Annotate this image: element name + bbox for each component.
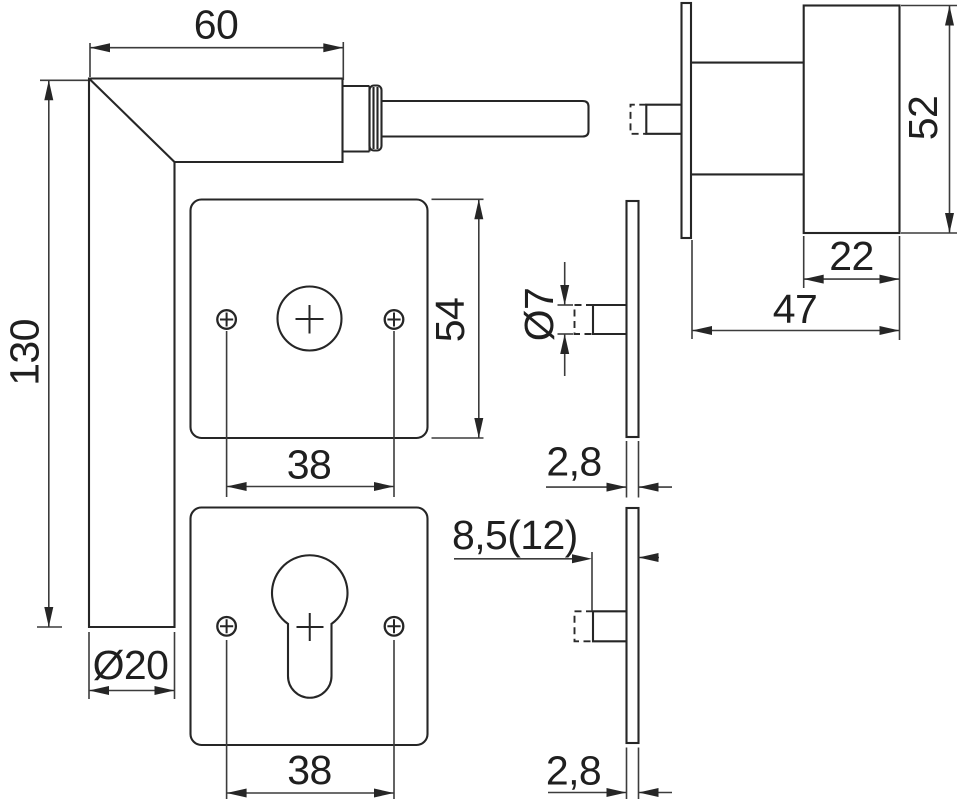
euro profile cylinder hole (272, 555, 348, 698)
svg-text:2,8: 2,8 (546, 748, 601, 794)
plate2 left screw (217, 617, 236, 636)
svg-text:130: 130 (2, 319, 48, 386)
escutcheon plate 1 front (191, 200, 428, 439)
svg-text:54: 54 (427, 298, 473, 342)
plate1 right screw (385, 310, 404, 329)
plate1 left screw (217, 310, 236, 329)
plate1 center cross (296, 305, 324, 334)
svg-text:38: 38 (287, 747, 331, 793)
dimension 130 (2, 80, 89, 627)
knob spindle stub (646, 105, 681, 134)
svg-text:60: 60 (194, 2, 238, 48)
plate2 side fixing stub (593, 611, 627, 641)
svg-text:52: 52 (900, 96, 946, 140)
svg-text:8,5(12): 8,5(12) (452, 512, 578, 558)
plate2 right screw (385, 617, 404, 636)
dimension 8,5(12) (452, 512, 659, 611)
svg-text:2,8: 2,8 (546, 439, 601, 485)
svg-text:47: 47 (773, 286, 817, 332)
dimension D7 (516, 262, 573, 376)
dimension 54 (427, 199, 484, 438)
dimension 60 (90, 2, 343, 81)
dimension 38 lower (227, 640, 394, 799)
knob rose plate side view (682, 3, 692, 238)
collar ring band (370, 86, 382, 151)
knob neck (691, 63, 804, 175)
escutcheon plate 2 front (191, 508, 428, 746)
dimension 52 (900, 6, 957, 234)
dimension 2,8 upper (546, 439, 672, 498)
lever miter line (89, 79, 175, 163)
plate1 center hole (278, 287, 342, 351)
svg-text:Ø20: Ø20 (93, 642, 169, 688)
plate1 side fixing stub (593, 305, 627, 334)
plate 1 side view (627, 201, 639, 437)
dimension 47 (692, 240, 900, 339)
lever handle front view outline (89, 79, 343, 628)
plate 2 side view (627, 508, 639, 743)
dimension D20 (89, 632, 175, 699)
svg-text:Ø7: Ø7 (516, 288, 562, 342)
plate2 center cross (297, 613, 324, 641)
spindle bar (382, 101, 589, 137)
knob body (804, 6, 900, 234)
dimension 38 upper (227, 331, 394, 497)
svg-text:38: 38 (287, 442, 331, 488)
dimension 2,8 lower (546, 748, 672, 800)
svg-text:22: 22 (829, 233, 873, 279)
dimension 22 (804, 233, 900, 340)
neck collar (343, 86, 370, 152)
